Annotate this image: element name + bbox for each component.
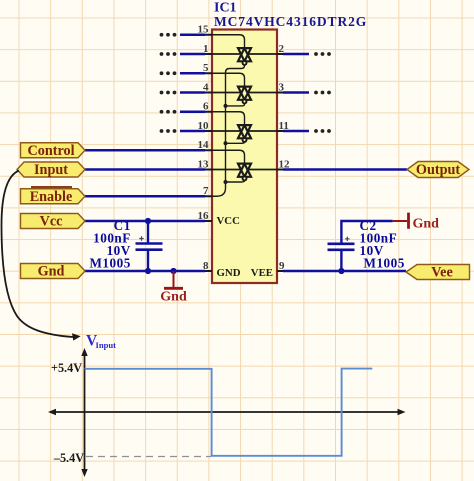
wire Gnd net: [85, 270, 205, 272]
port Input: [17, 162, 85, 178]
transmission gate 4: [238, 164, 251, 181]
gate through-line 2 (pins 4-3): [212, 92, 277, 94]
svg-text:VEE: VEE: [251, 267, 273, 279]
svg-text:Control: Control: [27, 143, 74, 159]
junction on enable bus at gate4: [224, 180, 228, 184]
pin stubs black (right): [277, 54, 285, 271]
transmission gate 1: [238, 48, 251, 65]
gate2 bubble tail: [226, 104, 245, 106]
svg-text:+5.4V: +5.4V: [51, 361, 82, 375]
port Gnd: [21, 264, 86, 280]
enable bus from gate1 bubble to pin7: [212, 65, 245, 196]
right stub wires: [283, 54, 309, 131]
svg-text:Gnd: Gnd: [413, 217, 440, 232]
gate3 bubble tail: [226, 142, 245, 143]
pin numbers left: [198, 24, 210, 272]
gate through-line 3 (pins 10-11): [212, 130, 277, 132]
capacitor C2: [340, 250, 342, 271]
gate through-line 4 (pins 13-12): [212, 169, 277, 171]
control route pin5 to gate2 top: [212, 73, 245, 86]
ground symbol left: [164, 271, 183, 288]
C2 polarity mark: [345, 237, 349, 241]
port Enable: [21, 187, 86, 205]
waveform V axis: [81, 348, 87, 477]
continuation dots left: [160, 33, 177, 133]
gate through-line 1 (pins 1-2): [212, 53, 277, 55]
wire C2 top to Gnd: [341, 221, 392, 244]
svg-text:Output: Output: [416, 162, 460, 178]
port Output: [407, 162, 469, 179]
left stub wires: [180, 35, 205, 131]
svg-text:MC74VHC4316DTR2G: MC74VHC4316DTR2G: [214, 14, 367, 29]
junction on enable bus at gate3: [224, 141, 228, 145]
control route pin14 to gate4 top: [212, 150, 245, 163]
svg-text:Gnd: Gnd: [160, 290, 187, 305]
junction Gnd/C1: [145, 268, 151, 274]
C1 labels: [89, 218, 130, 271]
wire Vee net: [283, 270, 406, 272]
wire Vcc net: [85, 220, 205, 222]
port Control: [21, 143, 86, 159]
ground symbol right: [393, 213, 409, 229]
continuation dots right: [314, 52, 331, 133]
svg-text:Enable: Enable: [30, 189, 73, 205]
C1 polarity mark: [139, 236, 143, 240]
waveform T axis: [48, 409, 406, 415]
junction Vee/C2: [338, 268, 344, 274]
capacitor C1: [147, 221, 149, 271]
svg-text:VCC: VCC: [217, 215, 240, 227]
svg-text:Input: Input: [96, 340, 117, 350]
wire Input net: [85, 168, 205, 170]
junction Gnd symbol tap: [170, 268, 176, 274]
control route pin6 to gate3 top: [212, 112, 245, 125]
C2 labels: [360, 218, 405, 271]
svg-text:Vee: Vee: [431, 265, 453, 281]
transmission gate 3: [238, 125, 251, 142]
svg-text:M1005: M1005: [364, 256, 405, 271]
svg-text:GND: GND: [217, 267, 241, 279]
wire Enable net: [85, 195, 205, 197]
wire Control net: [85, 149, 205, 151]
svg-text:Vcc: Vcc: [40, 214, 63, 230]
svg-text:–5.4V: –5.4V: [53, 451, 84, 465]
IC U1 body: [212, 30, 277, 284]
gate4 bubble tail: [226, 181, 245, 183]
junction on enable bus at gate2: [224, 104, 228, 108]
dashed low level line: [86, 456, 211, 458]
transmission gate 2: [238, 87, 251, 104]
svg-text:Input: Input: [34, 162, 68, 178]
svg-text:M1005: M1005: [89, 256, 130, 271]
annotation curved arrow: [2, 171, 74, 338]
control route pin15 to gate1 top: [212, 35, 245, 48]
port Vcc: [21, 214, 86, 230]
waveform square wave: [85, 369, 373, 456]
junction Vcc/C1: [145, 218, 151, 224]
svg-text:Gnd: Gnd: [38, 264, 65, 280]
pin numbers right: [279, 43, 291, 272]
pin stubs black (left): [204, 35, 212, 271]
port Vee: [406, 265, 470, 281]
wire Output net: [283, 168, 407, 170]
